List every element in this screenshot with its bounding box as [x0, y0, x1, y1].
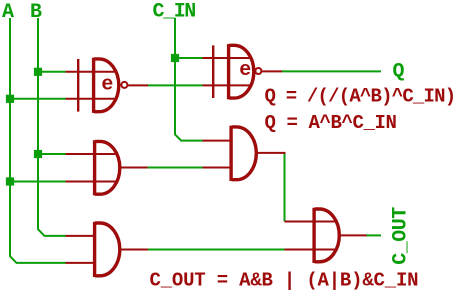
op-amp U2 xor input curve line: [212, 45, 214, 98]
svg-text:Q: Q: [393, 60, 405, 83]
op-amp U3 pin A: [66, 153, 117, 155]
op-amp U2 body arc: [229, 45, 254, 98]
svg-text:Q = /(/(A^B)^C_IN): Q = /(/(A^B)^C_IN): [265, 85, 455, 107]
wire net C_IN branch to U2 pin A: [175, 57, 203, 59]
svg-text:e: e: [101, 74, 113, 97]
op-amp U1 output bubble: [121, 82, 127, 88]
op-amp U3 body arc: [95, 141, 120, 194]
junction B to U1: [34, 68, 42, 76]
op-amp U2 pin B: [203, 84, 251, 86]
op-amp U6: OR gate C_OUT: [285, 208, 367, 263]
wire net A branch to U3 pin B: [10, 181, 66, 183]
op-amp U2: XNOR gate sum output: [203, 44, 283, 99]
op-amp U6 pin B: [285, 249, 337, 251]
op-amp U4 pin A: [203, 140, 232, 142]
op-amp U1 body bar: [92, 58, 95, 113]
svg-text:e: e: [239, 59, 251, 82]
op-amp U4 body arc: [232, 127, 257, 180]
op-amp U1 xor input curve line: [77, 59, 79, 112]
wire net B branch to U1 pin A: [38, 71, 66, 73]
op-amp U5: AND gate A and B: [66, 222, 149, 277]
op-amp U5 pin B: [66, 262, 95, 264]
wire net Q: [281, 70, 381, 72]
wire net B vertical with bend: [38, 18, 66, 236]
wire net A vertical with bend: [10, 18, 66, 263]
op-amp U1: XNOR gate A xnor B: [66, 58, 149, 113]
op-amp U6 body bar: [312, 208, 315, 263]
wire U5 output to U6 pin B: [147, 249, 286, 251]
op-amp U4 output pin: [257, 152, 286, 154]
wire U4 output down to U6 pin A: [284, 153, 286, 222]
wire net B branch to U3 pin A: [38, 153, 66, 155]
op-amp U1 output pin: [128, 84, 148, 86]
wire net C_OUT: [366, 234, 382, 236]
junction C_IN to U2: [171, 54, 179, 62]
op-amp U4 body bar: [229, 126, 232, 181]
svg-text:C_IN: C_IN: [153, 0, 196, 23]
op-amp U5 output pin: [120, 249, 148, 251]
op-amp U5 pin A: [66, 235, 95, 237]
wire U1 output to U2 pin B: [147, 84, 203, 86]
svg-text:B: B: [30, 1, 42, 24]
op-amp U5 body arc: [95, 223, 120, 276]
svg-text:C_OUT = A&B | (A|B)&C_IN: C_OUT = A&B | (A|B)&C_IN: [150, 269, 419, 291]
op-amp U3 pin B: [66, 181, 117, 183]
op-amp U1 body arc: [94, 59, 119, 112]
op-amp U1 pin B: [66, 98, 116, 100]
junction A to U3: [6, 177, 14, 185]
op-amp U3 output pin: [120, 167, 148, 169]
wire U3 output to U4 pin B: [147, 167, 204, 169]
wire net A branch to U1 pin B: [10, 98, 66, 100]
op-amp U2 output pin: [262, 70, 282, 72]
svg-text:Q = A^B^C_IN: Q = A^B^C_IN: [265, 112, 397, 134]
op-amp U1 pin A: [66, 71, 116, 73]
junction A to U1: [6, 95, 14, 103]
op-amp U2 output bubble: [255, 68, 261, 74]
wire net C_IN vertical with bend to U4 pin A: [175, 18, 203, 141]
op-amp U4 pin B: [203, 167, 232, 169]
op-amp U6 output pin: [340, 234, 367, 236]
op-amp U3 body bar: [93, 140, 96, 195]
op-amp U2 body bar: [227, 44, 230, 99]
svg-text:A: A: [2, 1, 14, 24]
op-amp U4: AND gate: [203, 126, 286, 181]
op-amp U6 pin A: [285, 221, 337, 223]
op-amp U3: OR gate A or B: [66, 140, 148, 195]
junction B to U3: [34, 150, 42, 158]
op-amp U2 pin A: [203, 57, 251, 59]
op-amp U5 body bar: [93, 222, 96, 277]
svg-text:C_OUT: C_OUT: [390, 207, 413, 265]
op-amp U6 body arc: [315, 209, 340, 262]
